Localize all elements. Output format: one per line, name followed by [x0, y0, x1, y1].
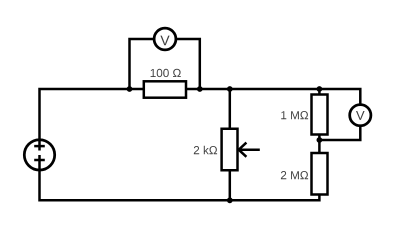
junction node at right voltmeter leg: [197, 86, 203, 92]
junction node bottom of potentiometer branch: [227, 197, 233, 203]
wire: top horizontal net from source to right branch: [40, 89, 320, 151]
resistor R3 value 1 MOhm: [281, 111, 308, 119]
voltmeter U1 circle: [154, 28, 176, 50]
potentiometer R2 wiper arrow: [239, 143, 260, 157]
wire: bottom net from source through bottom rail up to 2M resistor: [40, 155, 320, 200]
voltage source V1 plus bar bottom: [34, 159, 45, 162]
junction node between R3 and R4: [317, 137, 323, 143]
wire: middle branch for potentiometer: [229, 89, 232, 200]
voltage source V1 plus bar top: [34, 145, 45, 148]
voltmeter U1 label V: [160, 36, 169, 46]
junction node top of potentiometer branch: [227, 86, 233, 92]
resistor R1 body: [144, 81, 186, 97]
resistor R4 value 2 MOhm: [281, 171, 308, 179]
wire: right branch vertical through R3 and R4: [318, 89, 321, 195]
resistor R3 body: [312, 95, 328, 135]
potentiometer R2 body: [222, 129, 238, 171]
voltmeter U2 label V: [356, 111, 365, 120]
resistor R1 value 100 Ohm: [151, 69, 181, 77]
wire: top voltmeter parallel loop: [130, 39, 200, 89]
wire: right voltmeter loop: [319, 89, 360, 140]
voltmeter U2 circle: [350, 105, 371, 126]
voltage source V1 circle: [24, 140, 54, 170]
junction node at left voltmeter leg: [127, 86, 133, 92]
potentiometer R2 value 2 kOhm: [194, 146, 217, 155]
resistor R4 body: [312, 153, 328, 195]
junction node top of right branch: [317, 86, 323, 92]
